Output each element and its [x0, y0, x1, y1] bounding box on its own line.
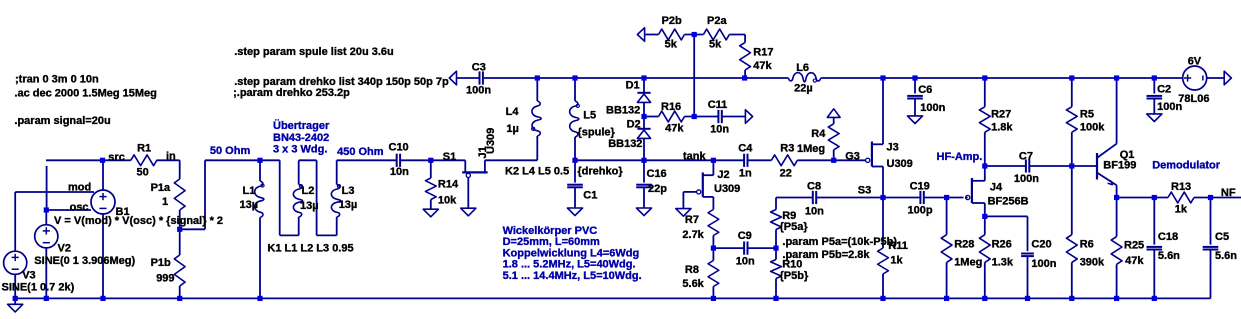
- svg-text:100n: 100n: [920, 102, 945, 114]
- svg-text:390k: 390k: [1080, 257, 1105, 269]
- svg-text:V = V(mod) * V(osc) * {signal}: V = V(mod) * V(osc) * {signal} * 2: [54, 215, 223, 227]
- svg-text:src: src: [108, 151, 125, 163]
- svg-text:1k: 1k: [890, 254, 903, 266]
- svg-text:L4: L4: [506, 106, 520, 118]
- svg-text:C16: C16: [647, 168, 667, 180]
- svg-text:D1: D1: [626, 79, 640, 91]
- svg-text:R11: R11: [888, 240, 908, 252]
- svg-text:{drehko}: {drehko}: [577, 166, 623, 178]
- svg-text:.step param drehko list 340p 1: .step param drehko list 340p 150p 50p 7p: [234, 76, 449, 88]
- svg-text:C19: C19: [910, 181, 930, 193]
- svg-text:C11: C11: [708, 99, 728, 111]
- svg-text:C3: C3: [472, 62, 486, 74]
- svg-text:J2: J2: [717, 169, 729, 181]
- svg-text:2.7k: 2.7k: [682, 229, 704, 241]
- svg-text:22: 22: [780, 167, 792, 179]
- svg-text:R6: R6: [1080, 239, 1094, 251]
- svg-text:G3: G3: [845, 151, 860, 163]
- svg-text:D2: D2: [627, 118, 641, 130]
- svg-text:1k: 1k: [1175, 204, 1188, 216]
- svg-text:100k: 100k: [1080, 121, 1105, 133]
- svg-text:10n: 10n: [736, 255, 755, 267]
- svg-text:P1b: P1b: [151, 257, 171, 269]
- svg-text:1.8 ... 5.2MHz, L5=40Wdg.: 1.8 ... 5.2MHz, L5=40Wdg.: [503, 259, 636, 271]
- svg-text:13µ: 13µ: [300, 200, 319, 212]
- svg-text:100n: 100n: [1031, 258, 1056, 270]
- svg-text:R8: R8: [685, 264, 699, 276]
- svg-text:in: in: [166, 151, 176, 163]
- svg-text:R1: R1: [137, 142, 151, 154]
- svg-text:10n: 10n: [710, 124, 729, 136]
- svg-text:P1a: P1a: [151, 182, 171, 194]
- svg-text:HF-Amp.: HF-Amp.: [937, 151, 983, 163]
- svg-text:R9: R9: [782, 210, 796, 222]
- svg-text:{spule}: {spule}: [578, 127, 616, 139]
- svg-text:13µ: 13µ: [240, 199, 259, 211]
- svg-text:BF199: BF199: [1103, 160, 1136, 172]
- svg-text:50 Ohm: 50 Ohm: [210, 145, 251, 157]
- svg-text:V2: V2: [58, 243, 71, 255]
- svg-text:10n: 10n: [805, 205, 824, 217]
- svg-text:BB132: BB132: [606, 104, 640, 116]
- svg-text:1µ: 1µ: [506, 123, 518, 135]
- svg-text:SINE(0 1 3.906Meg): SINE(0 1 3.906Meg): [34, 255, 135, 267]
- svg-text:C5: C5: [1215, 231, 1229, 243]
- svg-text:C9: C9: [738, 230, 752, 242]
- svg-text:P2a: P2a: [707, 15, 727, 27]
- svg-text:R25: R25: [1124, 240, 1144, 252]
- svg-text:R4: R4: [811, 128, 826, 140]
- svg-text:J4: J4: [990, 181, 1003, 193]
- svg-text:J3: J3: [887, 142, 899, 154]
- svg-text:L3: L3: [342, 185, 355, 197]
- svg-text:C10: C10: [389, 142, 409, 154]
- svg-text:S1: S1: [443, 151, 456, 163]
- svg-text:47k: 47k: [1125, 255, 1144, 267]
- svg-text:.param signal=20u: .param signal=20u: [14, 115, 110, 127]
- svg-text:C8: C8: [807, 181, 821, 193]
- svg-text:R16: R16: [661, 101, 681, 113]
- svg-text:C18: C18: [1158, 231, 1178, 243]
- svg-text:V3: V3: [22, 270, 35, 282]
- svg-text:1Meg: 1Meg: [954, 257, 982, 269]
- svg-text:;.param drehko 253.2p: ;.param drehko 253.2p: [233, 87, 350, 99]
- svg-text:NF: NF: [1221, 187, 1236, 199]
- svg-text:tank: tank: [683, 151, 707, 163]
- svg-text:D=25mm, L=60mm: D=25mm, L=60mm: [503, 236, 600, 248]
- svg-text:Koppelwicklung L4=6Wdg: Koppelwicklung L4=6Wdg: [503, 248, 640, 260]
- svg-text:R7: R7: [685, 214, 699, 226]
- svg-text:L6: L6: [796, 62, 809, 74]
- svg-text:5.6n: 5.6n: [1215, 250, 1237, 262]
- svg-text:3 x 3 Wdg.: 3 x 3 Wdg.: [273, 144, 327, 156]
- svg-text:22µ: 22µ: [794, 82, 813, 94]
- svg-text:{P5a}: {P5a}: [780, 221, 809, 233]
- svg-text:5.1 ... 14.4MHz, L5=10Wdg.: 5.1 ... 14.4MHz, L5=10Wdg.: [503, 270, 642, 282]
- svg-text:1.8k: 1.8k: [991, 121, 1013, 133]
- svg-text:Übertrager: Übertrager: [273, 119, 330, 132]
- svg-text:R17: R17: [753, 47, 773, 59]
- svg-text:K1 L1 L2 L3 0.95: K1 L1 L2 L3 0.95: [267, 242, 353, 254]
- svg-text:BN43-2402: BN43-2402: [273, 132, 329, 144]
- svg-text:C7: C7: [1019, 150, 1033, 162]
- svg-text:R3: R3: [780, 143, 794, 155]
- svg-text:.param P5a=(10k-P5b): .param P5a=(10k-P5b): [782, 236, 897, 248]
- svg-text:.ac dec 2000 1.5Meg 15Meg: .ac dec 2000 1.5Meg 15Meg: [14, 87, 156, 99]
- svg-text:5.6k: 5.6k: [682, 278, 704, 290]
- svg-text:1: 1: [162, 196, 168, 208]
- svg-text:K2 L4 L5 0.5: K2 L4 L5 0.5: [505, 165, 569, 177]
- svg-text:78L06: 78L06: [1178, 93, 1209, 105]
- svg-text:100n: 100n: [1014, 173, 1039, 185]
- svg-text:1.3k: 1.3k: [992, 257, 1014, 269]
- svg-text:U309: U309: [887, 158, 913, 170]
- svg-text:C6: C6: [918, 84, 932, 96]
- svg-text:R26: R26: [992, 239, 1012, 251]
- svg-text:10n: 10n: [390, 166, 409, 178]
- svg-text:mod: mod: [68, 181, 91, 193]
- svg-text:BF256B: BF256B: [988, 196, 1029, 208]
- svg-text:L5: L5: [583, 109, 596, 121]
- svg-text:R27: R27: [991, 109, 1011, 121]
- svg-text:osc: osc: [70, 201, 89, 213]
- svg-text:22p: 22p: [648, 183, 667, 195]
- svg-text:100p: 100p: [908, 205, 933, 217]
- svg-text:R5: R5: [1080, 109, 1094, 121]
- svg-text:450 Ohm: 450 Ohm: [337, 146, 384, 158]
- svg-text:S3: S3: [858, 185, 871, 197]
- svg-text:999: 999: [156, 272, 174, 284]
- svg-text:1Meg: 1Meg: [797, 143, 825, 155]
- svg-text:5k: 5k: [709, 39, 722, 51]
- svg-text:C1: C1: [583, 190, 597, 202]
- svg-text:Wickelkörper PVC: Wickelkörper PVC: [503, 225, 598, 237]
- svg-text:;tran 0 3m 0 10n: ;tran 0 3m 0 10n: [15, 74, 99, 86]
- svg-text:SINE(1 0.7 2k): SINE(1 0.7 2k): [2, 281, 75, 293]
- svg-text:{P5b}: {P5b}: [780, 270, 809, 282]
- svg-text:.step param spule list 20u 3.6: .step param spule list 20u 3.6u: [234, 46, 394, 58]
- svg-text:L1: L1: [243, 185, 256, 197]
- svg-text:47k: 47k: [665, 123, 684, 135]
- svg-text:C2: C2: [1157, 84, 1171, 96]
- svg-text:10k: 10k: [438, 194, 457, 206]
- svg-text:P2b: P2b: [662, 15, 682, 27]
- svg-text:47k: 47k: [753, 60, 772, 72]
- svg-text:5k: 5k: [665, 39, 678, 51]
- svg-text:L2: L2: [302, 185, 315, 197]
- svg-text:C4: C4: [738, 143, 753, 155]
- svg-text:U309: U309: [714, 183, 740, 195]
- svg-text:U309: U309: [485, 128, 497, 154]
- svg-text:R28: R28: [954, 239, 974, 251]
- svg-text:5.6n: 5.6n: [1158, 250, 1180, 262]
- svg-text:50: 50: [137, 167, 149, 179]
- svg-text:1n: 1n: [739, 168, 752, 180]
- svg-text:R13: R13: [1171, 181, 1191, 193]
- svg-text:6V: 6V: [1188, 55, 1202, 67]
- svg-text:R14: R14: [438, 179, 459, 191]
- svg-text:100n: 100n: [466, 85, 491, 97]
- svg-text:13µ: 13µ: [339, 199, 358, 211]
- svg-text:BB132: BB132: [608, 138, 642, 150]
- svg-text:R10: R10: [782, 259, 802, 271]
- svg-text:C20: C20: [1031, 239, 1051, 251]
- svg-text:Demodulator: Demodulator: [1152, 160, 1221, 172]
